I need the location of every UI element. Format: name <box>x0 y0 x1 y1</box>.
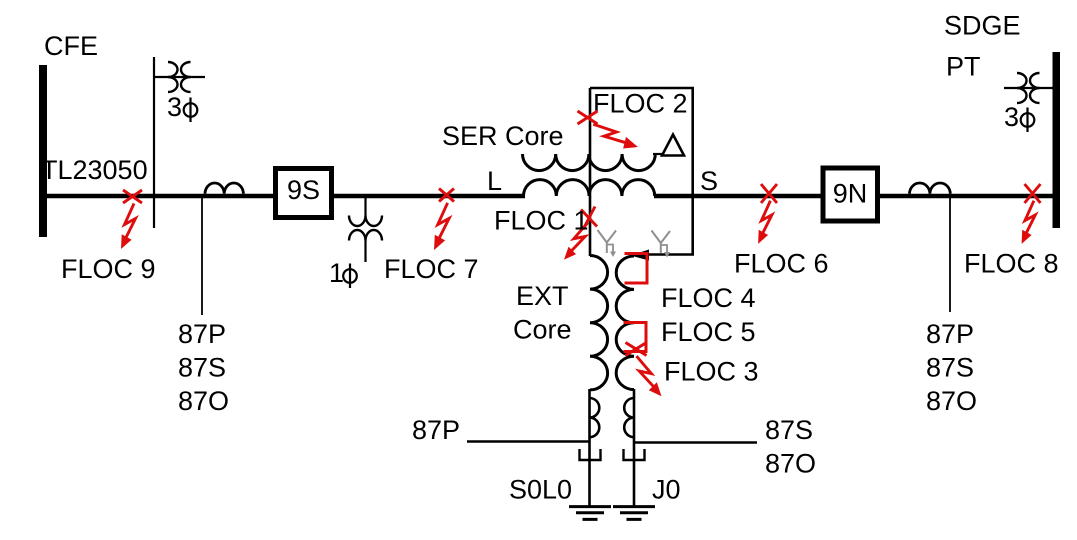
fault FLOC 9 X marker <box>123 190 142 203</box>
wire transformer center vertical <box>589 88 592 256</box>
PT 1phi upper winding <box>349 216 382 227</box>
breaker 9S box <box>276 169 332 218</box>
delta symbol <box>662 135 684 156</box>
svg-text:FLOC 5: FLOC 5 <box>661 317 756 347</box>
wire CFE PT horizontal lead <box>153 76 205 78</box>
svg-text:FLOC 3: FLOC 3 <box>664 357 759 387</box>
svg-text:3: 3 <box>167 92 182 122</box>
wire 1phi PT tap <box>364 197 366 216</box>
breaker 9N box <box>823 168 878 221</box>
fault FLOC 3 X marker <box>626 343 647 356</box>
svg-text:SER Core: SER Core <box>442 121 564 151</box>
PT SDGE 3-phase winding left half <box>1017 73 1027 103</box>
svg-text:87P: 87P <box>412 415 460 445</box>
wire 1phi PT bottom lead <box>364 241 366 263</box>
svg-text:FLOC 8: FLOC 8 <box>964 249 1059 279</box>
svg-text:CFE: CFE <box>44 31 98 61</box>
wire SDGE PT horizontal lead <box>1004 87 1053 89</box>
ground J0 <box>613 507 655 520</box>
svg-text:87O: 87O <box>178 386 229 416</box>
svg-text:Core: Core <box>513 315 572 345</box>
fault FLOC 8 lightning arrow <box>1025 201 1035 235</box>
winding series (main line) <box>524 180 655 196</box>
svg-text:L: L <box>487 166 502 196</box>
wire 87S 87O lead right <box>634 441 757 443</box>
bus SDGE (right busbar) <box>1053 52 1061 228</box>
wire delta connector <box>653 153 664 155</box>
fault FLOC 1 X marker <box>581 207 597 230</box>
fault FLOC 9 lightning arrow <box>125 204 136 240</box>
fault FLOC 8 X marker <box>1025 184 1041 203</box>
node CFE PT tap wire <box>153 57 155 228</box>
wire left CT lead down <box>201 197 203 315</box>
svg-text:87S: 87S <box>765 415 813 445</box>
bus CFE (left busbar) <box>39 65 47 237</box>
PT CFE 3-phase winding left half <box>168 62 178 92</box>
fault FLOC 7 X marker <box>439 189 454 202</box>
wire tertiary box bottom with arrow <box>646 253 694 256</box>
svg-text:87P: 87P <box>926 319 974 349</box>
switch mark J0 <box>624 449 645 460</box>
winding EXT right <box>616 256 634 390</box>
svg-text:SDGE: SDGE <box>944 11 1021 41</box>
winding SER tertiary <box>523 154 656 171</box>
CT neutral J0 <box>624 398 634 437</box>
PT 1phi lower winding <box>349 230 382 241</box>
svg-text:FLOC 6: FLOC 6 <box>734 249 829 279</box>
svg-text:9N: 9N <box>833 179 868 209</box>
wire neutral lead J0 <box>633 389 636 506</box>
winding EXT left <box>590 256 608 390</box>
svg-text:3: 3 <box>1004 102 1019 132</box>
svg-text:FLOC 4: FLOC 4 <box>661 283 756 313</box>
fault FLOC 1 lightning arrow <box>570 223 588 253</box>
wire 9N-to-SDGE bus <box>879 194 1053 199</box>
svg-text:FLOC 2: FLOC 2 <box>593 89 688 119</box>
svg-text:FLOC 1: FLOC 1 <box>494 206 589 236</box>
wire tertiary box top <box>590 87 694 90</box>
svg-text:TL23050: TL23050 <box>41 155 148 185</box>
PT SDGE 3-phase winding right half <box>1030 73 1040 103</box>
fault FLOC 2 lightning arrow <box>593 124 628 143</box>
switch mark S0L0 <box>580 449 601 460</box>
wire right CT lead down <box>949 197 951 312</box>
fault FLOC 2 X marker <box>578 111 598 124</box>
svg-text:9S: 9S <box>287 175 320 205</box>
CT neutral S0L0 <box>590 398 600 437</box>
svg-text:87S: 87S <box>178 353 226 383</box>
svg-text:S0L0: S0L0 <box>509 475 572 505</box>
fault FLOC 5 bracket <box>624 323 647 352</box>
wire 9S-to-transformer L <box>333 194 525 199</box>
ground S0L0 <box>569 507 611 520</box>
fault FLOC 7 lightning arrow <box>438 203 449 240</box>
svg-text:87P: 87P <box>178 319 226 349</box>
wire transformer S-to-9N <box>654 194 821 199</box>
svg-text:S: S <box>700 166 718 196</box>
wire 87P lead left <box>467 440 589 442</box>
CT right (line CT) <box>910 183 951 194</box>
svg-text:87O: 87O <box>765 449 816 479</box>
svg-text:87O: 87O <box>926 386 977 416</box>
wire tertiary box right <box>691 87 694 254</box>
svg-text:J0: J0 <box>652 475 681 505</box>
svg-text:PT: PT <box>946 52 981 82</box>
fault FLOC 3 lightning arrow <box>637 356 656 388</box>
fault FLOC 4 bracket <box>625 254 648 284</box>
svg-text:FLOC 9: FLOC 9 <box>61 254 156 284</box>
svg-text:FLOC 7: FLOC 7 <box>384 254 479 284</box>
svg-text:87S: 87S <box>926 353 974 383</box>
fault FLOC 6 X marker <box>761 184 777 203</box>
fault FLOC 6 lightning arrow <box>761 201 772 235</box>
wire neutral lead S0L0 <box>588 389 591 506</box>
wire TL23050 segment bus-to-9S <box>47 194 274 199</box>
svg-text:EXT: EXT <box>516 281 569 311</box>
wye symbol right (grey) <box>652 231 671 254</box>
svg-text:1: 1 <box>329 258 344 288</box>
wye symbol left (grey) <box>598 230 617 253</box>
PT CFE 3-phase winding right half <box>181 62 191 92</box>
CT left (line CT) <box>205 183 243 194</box>
